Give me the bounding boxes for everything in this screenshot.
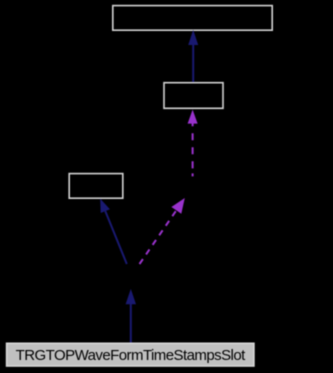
node mid (second level box, label invisible): [164, 83, 223, 109]
node left (third level box, label invisible): [69, 174, 123, 199]
edge inheritance arrow current->hidden-bottom (solid midnightblue vertical): [126, 289, 136, 343]
edge inheritance arrow hidden-bottom->left (solid midnightblue diagonal): [100, 199, 127, 264]
edge inheritance arrow mid->top (solid midnightblue): [188, 30, 198, 82]
node top (TRGTOPWaveFormTimeStamps base class box, label invisible): [113, 6, 272, 31]
svg-text:TRGTOPWaveFormTimeStampsSlot: TRGTOPWaveFormTimeStampsSlot: [16, 347, 246, 364]
node current TRGTOPWaveFormTimeStampsSlot (grey filled): [7, 343, 254, 366]
edge usage arrow hidden-bottom->hidden-right (dashed darkorchid diagonal): [140, 198, 185, 264]
edge usage arrow hidden-right->mid (dashed darkorchid vertical): [188, 110, 198, 177]
